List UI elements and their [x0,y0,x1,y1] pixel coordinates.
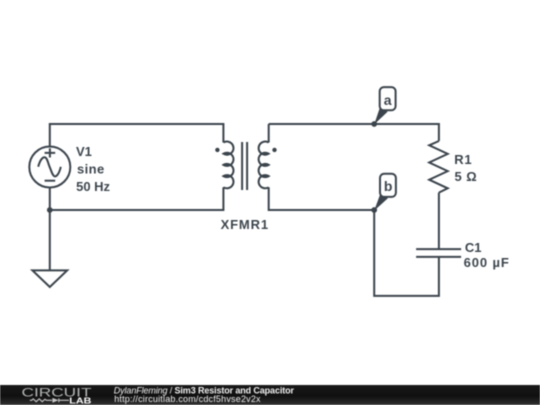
transformer secondary phase dot [272,148,276,152]
wire b junction down and bottom rail [374,210,439,296]
svg-text:600 µF: 600 µF [464,255,509,270]
wire ground stem [49,210,51,270]
junction dot node b [371,207,377,213]
wire secondary bottom to b junction [269,187,375,210]
node b flag tail [374,193,388,210]
capacitor C1 plates [416,249,461,257]
wire top left: V1 top to transformer primary top [50,124,224,147]
transformer XFMR1 secondary coil [259,142,269,189]
transformer XFMR1 primary coil [223,142,233,189]
V1 minus sign [45,180,56,182]
wire R1 bottom to C1 top [438,193,440,250]
svg-text:50 Hz: 50 Hz [76,179,110,194]
svg-text:5 Ω: 5 Ω [455,169,477,184]
node b flag box [380,174,396,197]
svg-text:R1: R1 [454,152,471,167]
junction dot at V1 bottom [47,207,53,213]
wire secondary top to R1 [269,124,439,143]
svg-text:LAB: LAB [69,397,91,405]
svg-text:a: a [384,92,392,108]
node a flag box [380,87,396,110]
svg-text:XFMR1: XFMR1 [221,217,269,232]
transformer core [242,142,247,190]
svg-text:sine: sine [77,161,104,176]
resistor R1 zigzag [429,141,448,193]
wire bottom left: V1 bottom to junction to transformer primary bottom [50,187,224,210]
svg-text:http://circuitlab.com/cdcf5hvs: http://circuitlab.com/cdcf5hvse2v2x [114,394,261,404]
logo resistor-diode squiggle [30,398,69,402]
voltage source V1 circle [29,147,70,188]
ground [32,270,67,287]
node a flag tail [374,107,387,125]
V1 plus sign [45,148,56,157]
transformer primary phase dot [215,148,219,152]
junction dot node a [371,121,377,127]
svg-text:C1: C1 [465,240,482,255]
V1 sine wave [38,157,61,176]
svg-text:b: b [384,178,393,194]
svg-text:V1: V1 [76,144,92,159]
logo diode triangle [52,398,58,403]
